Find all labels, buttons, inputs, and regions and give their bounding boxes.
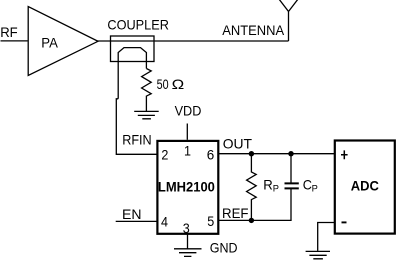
svg-text:Ω: Ω [172, 76, 185, 92]
svg-text:ANTENNA: ANTENNA [222, 22, 284, 38]
svg-text:P: P [312, 183, 318, 194]
svg-text:1: 1 [184, 142, 191, 158]
svg-text:4: 4 [161, 214, 168, 230]
svg-text:2: 2 [161, 146, 168, 162]
svg-text:RF: RF [0, 24, 18, 40]
svg-text:OUT: OUT [223, 136, 253, 152]
svg-text:RFIN: RFIN [122, 131, 152, 147]
svg-text:REF: REF [222, 205, 249, 221]
svg-text:EN: EN [122, 206, 142, 222]
svg-text:GND: GND [210, 240, 238, 256]
svg-text:VDD: VDD [175, 103, 202, 119]
svg-text:R: R [263, 176, 273, 192]
svg-text:5: 5 [207, 213, 214, 229]
svg-text:50: 50 [157, 76, 169, 92]
svg-text:ADC: ADC [351, 177, 379, 193]
svg-text:6: 6 [207, 146, 215, 162]
svg-text:LMH2100: LMH2100 [158, 178, 215, 194]
svg-text:C: C [303, 176, 312, 192]
svg-text:PA: PA [41, 34, 58, 50]
svg-text:P: P [273, 183, 279, 194]
svg-text:COUPLER: COUPLER [107, 17, 168, 33]
svg-text:3: 3 [183, 220, 190, 236]
